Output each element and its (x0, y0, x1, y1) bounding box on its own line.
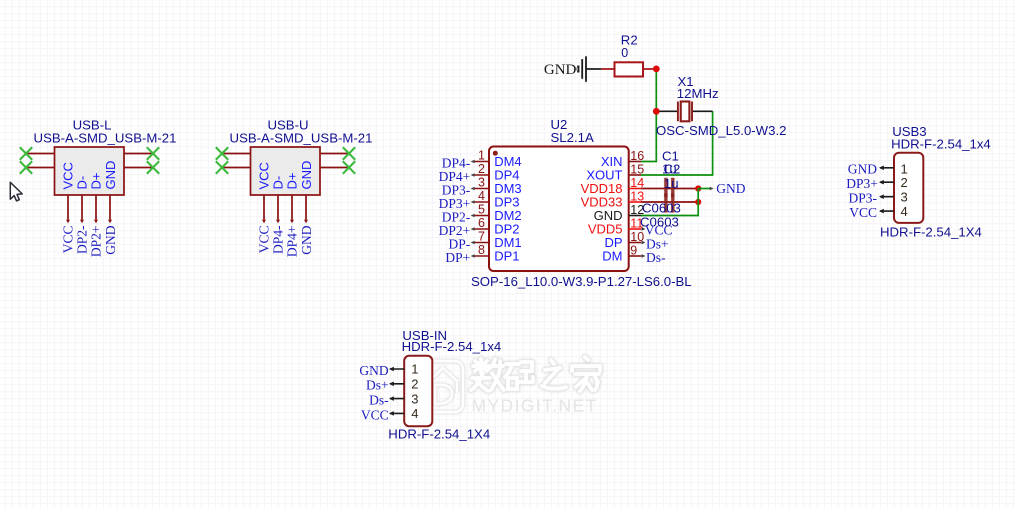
junction node caps bottom (695, 199, 701, 205)
ground pin dot (575, 68, 578, 71)
svg-text:DP+: DP+ (445, 250, 470, 265)
svg-text:DM: DM (602, 249, 622, 264)
IC U2 SL2.1A body (489, 147, 629, 272)
svg-text:GND: GND (544, 62, 577, 78)
wire USB-U pin right (320, 154, 349, 168)
wire USB-L pin right 1 (124, 154, 153, 168)
svg-text:9: 9 (630, 243, 637, 257)
svg-text:SL2.1A: SL2.1A (551, 130, 594, 145)
wire XOUT pin15 to crystal (641, 111, 713, 175)
svg-text:6: 6 (478, 216, 485, 230)
svg-text:14: 14 (630, 176, 644, 190)
svg-text:1: 1 (478, 148, 485, 162)
svg-text:D+: D+ (89, 173, 104, 190)
connector USB-IN body (404, 356, 432, 426)
svg-text:10: 10 (630, 230, 644, 244)
net label arrows USB-U bottom (262, 220, 308, 224)
svg-text:3: 3 (478, 175, 485, 189)
U2 pin 11 stub (red) (629, 228, 641, 230)
svg-text:DP4-: DP4- (271, 225, 286, 254)
junction node at crystal left (653, 108, 660, 115)
resistor R2 body (615, 62, 644, 76)
wire caps right down to pin12 (641, 189, 698, 216)
svg-text:3: 3 (411, 391, 418, 406)
ground symbol GND flag at R2 (578, 56, 601, 82)
svg-text:4: 4 (411, 406, 418, 421)
svg-text:GND: GND (359, 363, 388, 378)
wire USB-L pin left 1 (26, 153, 55, 155)
svg-text:D-: D- (75, 176, 90, 190)
USB-L bottom pins VCC DP2- DP2+ GND (68, 195, 110, 220)
svg-text:DP1: DP1 (494, 249, 519, 264)
svg-text:HDR-F-2.54_1X4: HDR-F-2.54_1X4 (880, 225, 982, 240)
net label arrow GND right (710, 187, 714, 191)
svg-text:DP2+: DP2+ (89, 226, 104, 258)
connector USB3 body (894, 153, 923, 223)
svg-text:HDR-F-2.54_1X4: HDR-F-2.54_1X4 (388, 427, 490, 442)
svg-text:4: 4 (478, 189, 485, 203)
U2 pin 9 stub (629, 255, 641, 257)
junction node at R2 right (653, 66, 660, 73)
wire R2 leads (601, 68, 656, 70)
mouse cursor (10, 182, 22, 201)
net label arrows USB-IN (389, 367, 394, 416)
svg-text:Ds+: Ds+ (366, 378, 389, 393)
svg-text:VCC: VCC (257, 226, 272, 254)
svg-text:VCC: VCC (61, 226, 76, 254)
svg-text:VCC: VCC (257, 162, 272, 189)
net label arrows USB-L bottom (66, 220, 112, 224)
net label arrows USB3 (879, 166, 884, 214)
USB-IN pin stubs (390, 369, 404, 413)
svg-text:DP4+: DP4+ (285, 226, 300, 258)
wire USB-L pin left 2 (26, 167, 55, 169)
svg-text:VCC: VCC (361, 407, 389, 422)
USB-U bottom pins VCC DP4- DP4+ GND (264, 195, 306, 220)
svg-text:Ds-: Ds- (369, 393, 389, 408)
svg-text:HDR-F-2.54_1x4: HDR-F-2.54_1x4 (402, 339, 502, 354)
svg-text:C0603: C0603 (640, 215, 679, 230)
svg-text:D+: D+ (285, 173, 300, 190)
no-connect X flags USB-L (20, 147, 159, 173)
svg-text:2: 2 (478, 162, 485, 176)
wire XIN pin16 to crystal (641, 69, 656, 162)
svg-text:12MHz: 12MHz (677, 86, 719, 101)
svg-text:7: 7 (478, 229, 485, 243)
svg-text:GND: GND (716, 181, 745, 196)
svg-text:HDR-F-2.54_1x4: HDR-F-2.54_1x4 (891, 136, 991, 151)
svg-text:1u: 1u (664, 176, 679, 191)
U2 left pin stubs 1-8 (475, 162, 490, 257)
watermark logo (423, 361, 463, 412)
svg-text:VCC: VCC (61, 162, 76, 189)
svg-text:2: 2 (901, 175, 908, 190)
capacitor C2 plates (664, 193, 674, 212)
svg-text:GND: GND (299, 161, 314, 190)
junction node caps top (695, 185, 701, 191)
svg-text:4: 4 (901, 204, 908, 219)
svg-text:15: 15 (630, 162, 644, 176)
wire VDD18 pin14 to caps (641, 188, 698, 190)
U2 pin 13 stub (red) (629, 201, 641, 203)
svg-text:Ds-: Ds- (646, 250, 666, 265)
svg-text:OSC-SMD_L5.0-W3.2: OSC-SMD_L5.0-W3.2 (656, 123, 786, 138)
svg-text:DP2-: DP2- (75, 225, 90, 254)
svg-text:USB-A-SMD_USB-M-21: USB-A-SMD_USB-M-21 (34, 130, 177, 145)
U2 pin 16 stub (629, 161, 641, 163)
wire USB-U pin left (222, 154, 251, 168)
net label arrows U2 right pins 11 10 9 (641, 227, 645, 258)
svg-text:GND: GND (848, 162, 877, 177)
svg-text:8: 8 (478, 243, 485, 257)
svg-text:USB-A-SMD_USB-M-21: USB-A-SMD_USB-M-21 (230, 130, 373, 145)
U2 pin 15 stub (629, 174, 641, 176)
no-connect X flags USB-U (216, 147, 355, 173)
svg-text:DP3+: DP3+ (846, 176, 878, 191)
svg-text:1: 1 (411, 362, 418, 377)
wire caps to GND label (698, 188, 710, 190)
capacitor C1 plates (664, 178, 674, 197)
svg-text:GND: GND (299, 225, 314, 254)
U2 pin 10 stub (629, 242, 641, 244)
USB3 pin stubs (880, 168, 894, 211)
U2 pin 12 stub (black) (629, 215, 641, 217)
svg-text:16: 16 (630, 149, 644, 163)
U2 pin 14 stub (red) (629, 188, 641, 190)
svg-text:0: 0 (621, 46, 628, 60)
svg-text:GND: GND (103, 225, 118, 254)
crystal X1 12MHz (659, 102, 712, 122)
net label arrows U2 left (471, 160, 475, 258)
connector USB-L (55, 147, 125, 195)
svg-text:C2: C2 (664, 161, 681, 176)
pin 1 marker dot U2 (493, 151, 498, 156)
svg-text:3: 3 (901, 189, 908, 204)
svg-text:GND: GND (103, 161, 118, 190)
svg-text:2: 2 (411, 377, 418, 392)
svg-text:5: 5 (478, 202, 485, 216)
svg-text:C0603: C0603 (642, 200, 681, 215)
svg-text:DP3-: DP3- (848, 191, 877, 206)
svg-text:MYDIGIT.NET: MYDIGIT.NET (472, 396, 598, 416)
connector USB-U (251, 147, 321, 195)
wire VDD33 pin13 to caps (641, 201, 698, 203)
svg-text:VCC: VCC (849, 205, 877, 220)
svg-text:SOP-16_L10.0-W3.9-P1.27-LS6.0-: SOP-16_L10.0-W3.9-P1.27-LS6.0-BL (471, 274, 692, 289)
svg-text:D-: D- (271, 176, 286, 190)
